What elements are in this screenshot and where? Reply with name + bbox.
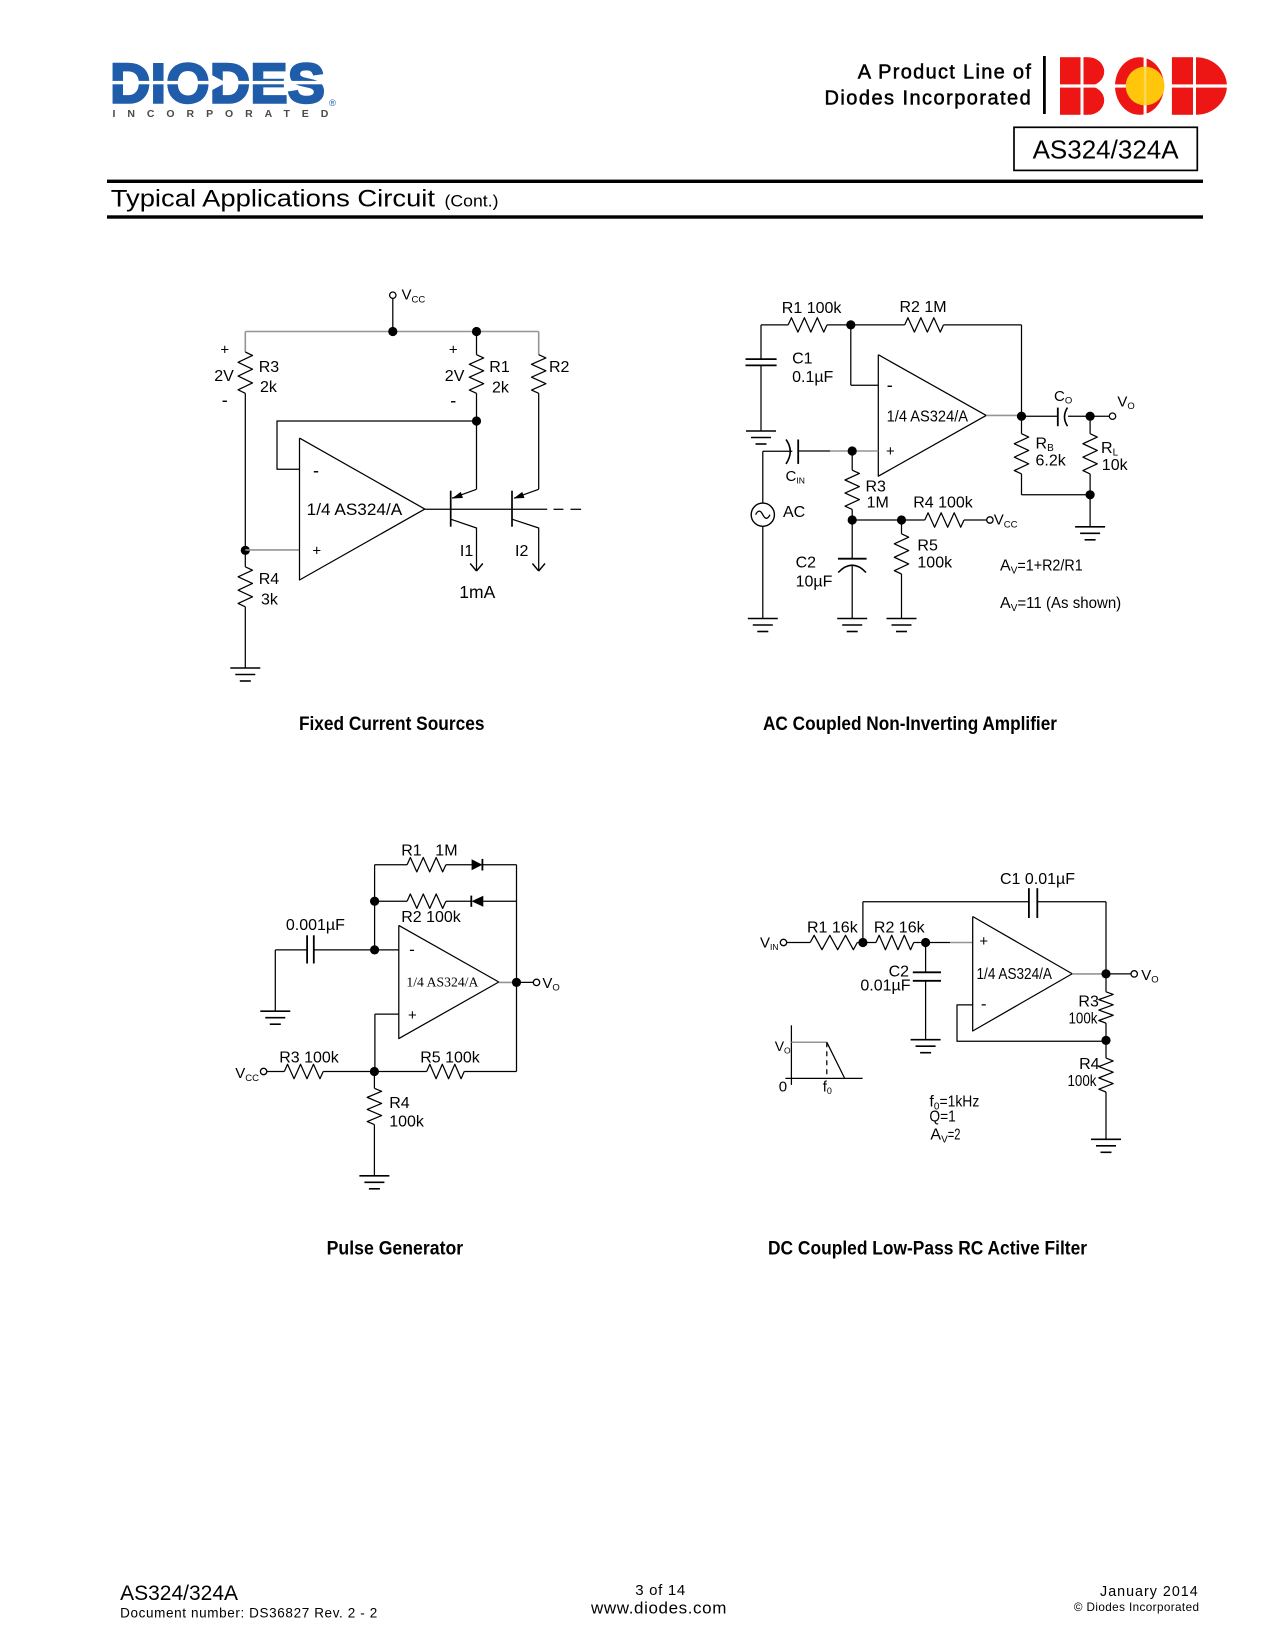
- svg-text:R5 100k: R5 100k: [420, 1050, 481, 1067]
- svg-text:1/4 AS324/A: 1/4 AS324/A: [887, 409, 969, 426]
- svg-text:R2 16k: R2 16k: [874, 920, 926, 937]
- svg-text:Pulse Generator: Pulse Generator: [327, 1238, 464, 1260]
- svg-text:RB: RB: [1036, 436, 1055, 455]
- svg-text:C1 0.01µF: C1 0.01µF: [1000, 871, 1075, 888]
- svg-text:+: +: [886, 443, 895, 460]
- svg-text:R4: R4: [1079, 1056, 1100, 1073]
- svg-text:R1: R1: [401, 842, 422, 859]
- svg-text:VO: VO: [1117, 394, 1134, 413]
- svg-text:R4 100k: R4 100k: [913, 494, 974, 511]
- svg-text:VO: VO: [775, 1038, 791, 1056]
- svg-text:R1 16k: R1 16k: [807, 920, 859, 937]
- svg-text:R4: R4: [389, 1095, 410, 1112]
- svg-text:+: +: [312, 543, 321, 560]
- svg-text:=11 (As shown): =11 (As shown): [1017, 595, 1121, 612]
- svg-text:100k: 100k: [389, 1114, 425, 1131]
- svg-text:R2 1M: R2 1M: [900, 299, 947, 316]
- svg-text:R1 100k: R1 100k: [782, 300, 843, 317]
- svg-text:=2: =2: [948, 1127, 961, 1144]
- svg-text:VO: VO: [542, 975, 559, 994]
- svg-text:2k: 2k: [492, 380, 510, 397]
- svg-text:-: -: [450, 391, 456, 411]
- svg-text:+: +: [220, 342, 229, 359]
- svg-text:0.01µF: 0.01µF: [860, 978, 910, 995]
- svg-text:AC: AC: [783, 504, 805, 521]
- svg-text:-: -: [981, 995, 987, 1014]
- svg-text:2V: 2V: [214, 368, 234, 385]
- svg-text:(Cont.): (Cont.): [445, 193, 499, 211]
- svg-text:1M: 1M: [867, 494, 889, 511]
- svg-text:1/4 AS324/A: 1/4 AS324/A: [977, 966, 1053, 983]
- svg-text:10k: 10k: [1102, 457, 1129, 474]
- svg-text:January 2014: January 2014: [1100, 1584, 1199, 1600]
- svg-text:Document number: DS36827 Rev.: Document number: DS36827 Rev. 2 - 2: [120, 1606, 378, 1621]
- svg-text:R3 100k: R3 100k: [279, 1050, 340, 1067]
- svg-text:R1: R1: [489, 359, 510, 376]
- svg-text:100k: 100k: [1069, 1011, 1099, 1028]
- svg-text:INCORPORATED: INCORPORATED: [113, 108, 341, 120]
- svg-text:VO: VO: [1141, 967, 1158, 986]
- svg-text:3 of 14: 3 of 14: [635, 1582, 686, 1599]
- svg-text:Q=1: Q=1: [929, 1109, 955, 1126]
- svg-text:AS324/324A: AS324/324A: [120, 1582, 238, 1605]
- svg-text:A Product Line of: A Product Line of: [858, 62, 1032, 84]
- svg-text:A: A: [1000, 595, 1011, 612]
- svg-text:1mA: 1mA: [459, 582, 495, 602]
- svg-text:CIN: CIN: [786, 468, 805, 486]
- svg-text:-: -: [887, 375, 893, 395]
- svg-text:VCC: VCC: [402, 287, 426, 306]
- svg-text:100k: 100k: [917, 555, 953, 572]
- svg-text:2k: 2k: [260, 379, 278, 396]
- svg-text:R3: R3: [259, 359, 280, 376]
- svg-text:+: +: [979, 933, 988, 950]
- svg-text:Typical Applications Circuit: Typical Applications Circuit: [111, 186, 436, 213]
- svg-text:1M: 1M: [435, 842, 457, 859]
- svg-text:AC Coupled Non-Inverting Ampli: AC Coupled Non-Inverting Amplifier: [763, 713, 1057, 735]
- svg-text:© Diodes Incorporated: © Diodes Incorporated: [1074, 1601, 1200, 1614]
- svg-text:A: A: [1000, 558, 1011, 575]
- svg-text:I1: I1: [460, 543, 473, 560]
- svg-text:AS324/324A: AS324/324A: [1033, 135, 1180, 165]
- svg-text:f0: f0: [823, 1079, 832, 1097]
- svg-text:+: +: [408, 1007, 417, 1024]
- svg-text:=1+R2/R1: =1+R2/R1: [1017, 558, 1082, 575]
- svg-text:R3: R3: [866, 478, 887, 495]
- svg-text:VCC: VCC: [994, 512, 1018, 531]
- svg-text:VCC: VCC: [235, 1065, 259, 1084]
- svg-text:0.1µF: 0.1µF: [792, 369, 833, 386]
- svg-text:-: -: [409, 940, 415, 959]
- svg-text:Fixed Current Sources: Fixed Current Sources: [299, 713, 485, 735]
- svg-text:I2: I2: [515, 543, 528, 560]
- svg-text:0: 0: [779, 1079, 787, 1096]
- svg-text:R2: R2: [549, 359, 570, 376]
- svg-text:10µF: 10µF: [796, 574, 833, 591]
- svg-text:C2: C2: [796, 555, 817, 572]
- svg-text:+: +: [449, 342, 458, 359]
- svg-text:RL: RL: [1101, 440, 1119, 459]
- svg-text:2V: 2V: [445, 368, 465, 385]
- svg-text:3k: 3k: [261, 592, 279, 609]
- svg-text:C1: C1: [792, 351, 813, 368]
- svg-text:R3: R3: [1078, 994, 1099, 1011]
- svg-text:R2 100k: R2 100k: [401, 909, 462, 926]
- svg-text:VIN: VIN: [760, 935, 779, 953]
- svg-text:R5: R5: [917, 538, 938, 555]
- svg-text:100k: 100k: [1068, 1073, 1098, 1090]
- svg-text:Diodes Incorporated: Diodes Incorporated: [825, 87, 1033, 109]
- svg-text:DC Coupled Low-Pass RC Active: DC Coupled Low-Pass RC Active Filter: [768, 1238, 1087, 1260]
- svg-text:CO: CO: [1054, 388, 1072, 407]
- svg-text:1/4 AS324/A: 1/4 AS324/A: [307, 501, 403, 519]
- svg-text:R4: R4: [259, 571, 280, 588]
- svg-text:6.2k: 6.2k: [1036, 453, 1067, 470]
- svg-text:0.001µF: 0.001µF: [286, 917, 345, 934]
- svg-text:1/4 AS324/A: 1/4 AS324/A: [406, 975, 478, 990]
- svg-text:-: -: [222, 390, 228, 410]
- svg-text:www.diodes.com: www.diodes.com: [590, 1599, 727, 1618]
- svg-text:A: A: [930, 1127, 941, 1144]
- svg-text:-: -: [313, 461, 319, 481]
